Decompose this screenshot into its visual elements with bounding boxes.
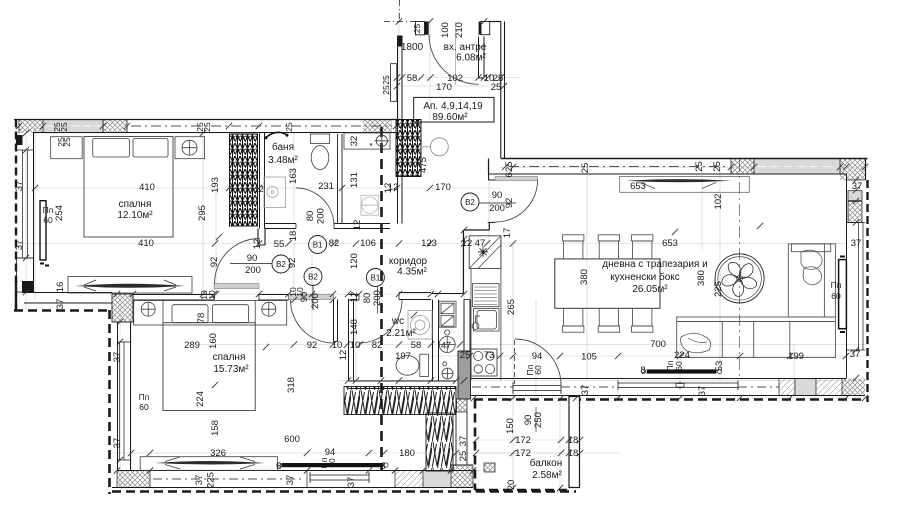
svg-text:200: 200 <box>310 293 321 309</box>
svg-text:60: 60 <box>533 365 543 375</box>
svg-text:25: 25 <box>284 122 294 132</box>
svg-text:326: 326 <box>210 448 226 459</box>
svg-text:37: 37 <box>112 352 123 363</box>
svg-text:Ап. 4,9,14,19: Ап. 4,9,14,19 <box>423 101 483 112</box>
svg-text:89.60м²: 89.60м² <box>432 112 468 123</box>
horizontal construction/dimension lines <box>14 132 396 134</box>
svg-text:410: 410 <box>139 182 155 193</box>
svg-text:16: 16 <box>55 282 66 293</box>
svg-text:8: 8 <box>640 365 645 376</box>
svg-text:197: 197 <box>395 351 411 362</box>
svg-text:25: 25 <box>62 137 72 147</box>
svg-text:289: 289 <box>184 340 200 351</box>
svg-text:254: 254 <box>54 205 65 221</box>
svg-text:12: 12 <box>349 292 360 303</box>
svg-text:37: 37 <box>55 299 66 310</box>
bedroom2 east B2 door arc <box>291 300 334 343</box>
dining table <box>555 259 660 308</box>
svg-text:спалня: спалня <box>213 352 246 363</box>
bedroom2 west B2 door arc <box>215 239 260 284</box>
svg-text:Пп: Пп <box>831 280 842 290</box>
svg-text:224: 224 <box>195 391 206 407</box>
svg-text:225: 225 <box>713 281 724 297</box>
svg-text:18: 18 <box>568 448 579 459</box>
svg-text:653: 653 <box>662 238 678 249</box>
svg-text:380: 380 <box>696 270 707 286</box>
wc B1 door arc <box>359 300 402 343</box>
svg-text:20: 20 <box>506 480 517 491</box>
svg-text:wc: wc <box>391 316 404 327</box>
vertical construction lines <box>34 119 36 300</box>
floor convector living <box>647 369 717 373</box>
svg-text:265: 265 <box>506 299 517 315</box>
svg-text:172: 172 <box>515 435 531 446</box>
entrance wardrobe zigzag <box>396 120 421 177</box>
svg-text:3.48м²: 3.48м² <box>268 155 298 166</box>
svg-text:25: 25 <box>460 350 471 361</box>
svg-text:200: 200 <box>245 265 261 276</box>
svg-text:25: 25 <box>59 122 69 132</box>
svg-text:58: 58 <box>407 73 418 84</box>
living room B2 door arc <box>496 180 538 222</box>
svg-text:200: 200 <box>316 208 327 224</box>
svg-text:коридор: коридор <box>389 256 428 267</box>
living room windows in bottom wall <box>618 383 738 388</box>
svg-text:90: 90 <box>247 253 258 264</box>
svg-text:50: 50 <box>327 458 337 468</box>
tv cabinet bedroom2 <box>140 457 277 471</box>
sofa <box>677 244 836 358</box>
svg-text:25: 25 <box>712 161 723 172</box>
svg-text:2.21м²: 2.21м² <box>386 328 416 339</box>
toilet bath <box>311 134 330 144</box>
svg-text:78: 78 <box>196 313 207 324</box>
svg-text:58: 58 <box>411 340 422 351</box>
svg-text:В1: В1 <box>313 241 323 250</box>
svg-text:37: 37 <box>851 238 862 249</box>
svg-text:17: 17 <box>502 228 513 239</box>
svg-text:150: 150 <box>505 418 516 434</box>
bedroom2 east wall stub <box>334 300 338 342</box>
svg-text:25: 25 <box>491 82 502 93</box>
svg-text:12: 12 <box>352 220 363 231</box>
svg-text:90: 90 <box>299 292 310 303</box>
svg-text:47: 47 <box>475 238 486 249</box>
svg-text:250: 250 <box>533 412 544 428</box>
svg-text:210: 210 <box>454 22 465 38</box>
room names <box>117 42 707 481</box>
svg-text:26.05м²: 26.05м² <box>632 284 668 295</box>
svg-text:163: 163 <box>288 168 299 184</box>
svg-text:172: 172 <box>515 448 531 459</box>
svg-text:баня: баня <box>272 141 294 153</box>
svg-text:700: 700 <box>650 339 666 350</box>
svg-text:вх. антре: вх. антре <box>444 42 487 53</box>
B2a door sill <box>214 284 259 289</box>
wardrobe zigzag bedroom1/bath <box>230 134 258 226</box>
svg-text:80: 80 <box>305 211 316 222</box>
svg-text:105: 105 <box>581 352 597 363</box>
tv cabinet bedroom1 <box>68 277 192 294</box>
floor convector bedroom2 <box>282 463 384 467</box>
svg-text:92: 92 <box>209 257 220 268</box>
svg-text:8: 8 <box>276 461 281 472</box>
bold dashed terrace line <box>474 398 866 401</box>
bath B1 door arc <box>296 188 334 226</box>
svg-text:410: 410 <box>138 238 154 249</box>
svg-text:8: 8 <box>380 461 385 472</box>
svg-text:180: 180 <box>399 448 415 459</box>
svg-text:12: 12 <box>254 184 264 194</box>
svg-text:25: 25 <box>694 161 705 172</box>
svg-text:25: 25 <box>381 75 391 85</box>
svg-text:653: 653 <box>630 181 646 192</box>
svg-text:625: 625 <box>504 162 515 178</box>
svg-text:92: 92 <box>307 340 318 351</box>
bed1 <box>84 137 173 238</box>
svg-text:37: 37 <box>14 181 25 192</box>
svg-text:231: 231 <box>318 181 334 192</box>
nightstand row <box>51 137 82 159</box>
svg-text:15.73м²: 15.73м² <box>213 364 249 375</box>
window in left wall <box>23 150 28 258</box>
entrance door arc <box>429 35 479 85</box>
svg-text:60: 60 <box>43 215 53 225</box>
door label circles <box>230 193 516 313</box>
svg-text:60: 60 <box>674 361 684 371</box>
svg-text:37: 37 <box>346 477 357 488</box>
svg-text:55: 55 <box>274 239 285 250</box>
rotated dimension numbers <box>14 22 725 490</box>
svg-text:12: 12 <box>252 239 263 250</box>
gray wall chunk left of balcony door <box>458 351 471 399</box>
svg-text:60: 60 <box>831 291 841 301</box>
svg-text:60: 60 <box>139 402 149 412</box>
svg-text:37: 37 <box>285 475 296 486</box>
svg-text:25: 25 <box>458 451 469 462</box>
svg-text:102: 102 <box>713 194 724 210</box>
svg-text:дневна с трапезария и: дневна с трапезария и <box>602 259 707 270</box>
fixtures column <box>439 301 456 327</box>
svg-text:94: 94 <box>532 351 543 362</box>
hatched pier at inner corner <box>112 294 133 322</box>
svg-text:кухненски бокс: кухненски бокс <box>610 271 680 283</box>
svg-text:1800: 1800 <box>401 42 424 53</box>
washer bath (light) <box>361 195 379 215</box>
svg-text:2.58м²: 2.58м² <box>532 470 562 481</box>
svg-text:25: 25 <box>381 85 391 95</box>
svg-text:37: 37 <box>697 386 708 397</box>
svg-text:25: 25 <box>412 24 422 34</box>
corridor stub west <box>258 229 265 246</box>
svg-text:90: 90 <box>492 190 503 201</box>
radiator right <box>839 260 847 329</box>
svg-text:160: 160 <box>208 333 219 349</box>
svg-text:100: 100 <box>440 22 451 38</box>
svg-text:37: 37 <box>194 475 205 486</box>
svg-text:158: 158 <box>210 420 221 436</box>
svg-text:193: 193 <box>210 177 221 193</box>
boundary wall to living room <box>501 22 505 159</box>
svg-text:475: 475 <box>418 157 429 173</box>
svg-text:В2: В2 <box>308 273 318 282</box>
svg-text:Пп: Пп <box>139 392 150 402</box>
svg-text:82: 82 <box>372 340 383 351</box>
svg-text:148: 148 <box>349 319 360 335</box>
svg-text:106: 106 <box>360 238 376 249</box>
svg-text:25: 25 <box>580 163 591 174</box>
horizontal dimension numbers <box>43 73 863 472</box>
svg-text:600: 600 <box>284 434 300 445</box>
svg-text:спалня: спалня <box>119 199 152 210</box>
svg-text:295: 295 <box>197 205 208 221</box>
vanity top right <box>344 133 390 149</box>
svg-text:37: 37 <box>112 438 123 449</box>
svg-text:53: 53 <box>714 361 725 372</box>
radiator left <box>40 201 46 260</box>
ceiling fan <box>715 254 764 303</box>
svg-text:37: 37 <box>458 436 469 447</box>
svg-text:199: 199 <box>788 351 804 362</box>
svg-text:4.35м²: 4.35м² <box>397 267 427 278</box>
svg-text:Пп: Пп <box>43 205 54 215</box>
svg-text:В2: В2 <box>465 198 475 207</box>
svg-text:6.08м²: 6.08м² <box>456 53 486 64</box>
svg-text:12: 12 <box>383 183 394 194</box>
svg-text:120: 120 <box>349 253 360 269</box>
svg-text:37: 37 <box>580 385 591 396</box>
svg-text:32: 32 <box>349 136 360 147</box>
tv stand living <box>620 176 750 192</box>
svg-text:балкон: балкон <box>530 457 562 469</box>
svg-text:18: 18 <box>288 231 299 242</box>
chairs top <box>563 235 653 332</box>
wall band outline <box>14 119 401 121</box>
chairs bottom <box>564 308 583 326</box>
svg-text:225: 225 <box>206 472 217 488</box>
svg-text:380: 380 <box>579 269 590 285</box>
svg-text:224: 224 <box>674 350 690 361</box>
svg-text:170: 170 <box>435 182 451 193</box>
svg-text:18: 18 <box>568 435 579 446</box>
svg-text:170: 170 <box>436 82 452 93</box>
svg-text:123: 123 <box>421 238 437 249</box>
svg-text:25: 25 <box>202 122 212 132</box>
svg-text:47: 47 <box>441 341 451 351</box>
svg-text:В1: В1 <box>371 274 381 283</box>
svg-text:73: 73 <box>484 350 495 361</box>
lower-left bedroom wall <box>118 322 131 470</box>
svg-text:37: 37 <box>14 240 25 251</box>
balcony door rails <box>513 386 561 391</box>
svg-text:131: 131 <box>349 172 360 188</box>
svg-text:10: 10 <box>332 340 343 351</box>
svg-text:200: 200 <box>489 203 505 214</box>
svg-text:94: 94 <box>325 447 336 458</box>
wall band fills <box>19 120 43 133</box>
svg-text:318: 318 <box>286 377 297 393</box>
closet hatches <box>344 387 456 415</box>
balcony door arc <box>515 339 561 385</box>
svg-text:12.10м²: 12.10м² <box>117 210 153 221</box>
left step + door sill of living room <box>489 174 496 180</box>
window axis dash-dot living room <box>739 160 741 378</box>
svg-text:12: 12 <box>338 350 349 361</box>
svg-text:В2: В2 <box>276 260 286 269</box>
